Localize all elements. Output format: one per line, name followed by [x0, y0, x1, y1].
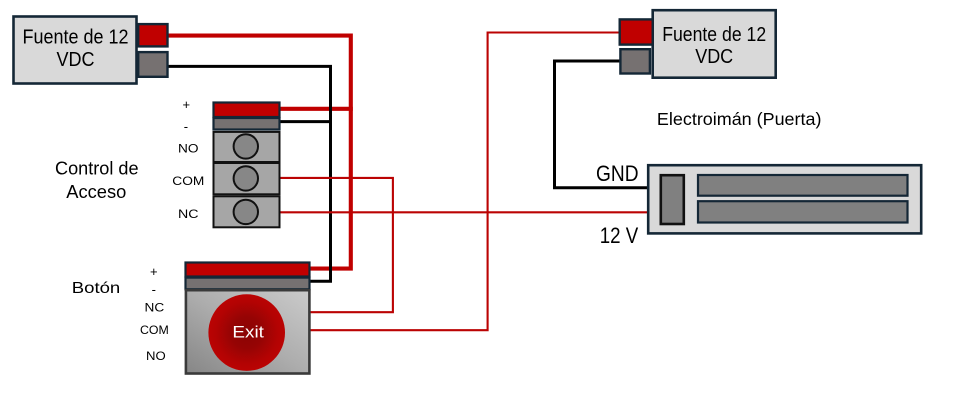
svg-text:Control de: Control de: [55, 159, 139, 179]
wire: left PSU + (red) to exit button +: [169, 36, 351, 269]
wire: control NC to maglock 12V: [281, 211, 648, 213]
svg-text:COM: COM: [140, 323, 169, 337]
svg-text:NC: NC: [178, 207, 199, 221]
svg-text:-: -: [152, 282, 156, 297]
wire: control COM to exit NC: [281, 178, 393, 312]
svg-text:-: -: [184, 119, 188, 134]
wire: right PSU - (black) to maglock GND: [555, 61, 648, 188]
exit button terminal - (gray cell): [186, 278, 310, 290]
wire: control access - to black vertical: [281, 120, 333, 123]
maglock magnet bar 1: [698, 175, 908, 196]
control access relay NC box: [214, 196, 280, 227]
svg-text:Fuente de 12: Fuente de 12: [662, 24, 766, 46]
terminal PS1 +12V (red): [138, 24, 167, 46]
terminal PS2 GND (gray): [620, 49, 650, 73]
svg-text:COM: COM: [172, 174, 204, 188]
svg-text:12 V: 12 V: [600, 223, 639, 248]
wire: left PSU - (black) to exit button -: [169, 66, 331, 281]
svg-text:GND: GND: [596, 161, 639, 186]
control access relay COM box: [214, 163, 280, 194]
wire: exit COM to right PSU +: [310, 33, 620, 331]
power supply PS1 box "Fuente de 12 VDC" (left): [14, 17, 137, 84]
exit button body: [186, 290, 310, 373]
exit button red pushbutton: [208, 294, 285, 371]
wire: control access + to red vertical: [281, 107, 353, 111]
svg-text:+: +: [150, 264, 158, 279]
svg-text:NC: NC: [145, 300, 165, 314]
control access terminal + (red cell): [214, 103, 280, 118]
maglock magnet bar 2: [698, 201, 908, 222]
svg-text:VDC: VDC: [57, 49, 95, 71]
power supply PS2 box "Fuente de 12 VDC" (right): [653, 10, 776, 78]
svg-text:+: +: [183, 97, 191, 112]
control access relay NO box: [214, 132, 280, 162]
svg-text:NO: NO: [146, 349, 166, 363]
exit button terminal + (red cell): [186, 263, 310, 277]
terminal PS1 GND (gray): [138, 52, 167, 77]
svg-text:Exit: Exit: [232, 323, 264, 342]
control access terminal - (gray cell): [214, 118, 280, 130]
electromagnet (maglock) body: [648, 165, 921, 233]
svg-text:Botón: Botón: [72, 280, 121, 297]
svg-text:Electroimán (Puerta): Electroimán (Puerta): [657, 109, 822, 129]
terminal PS2 +12V (red): [620, 19, 653, 44]
svg-text:VDC: VDC: [695, 46, 733, 68]
maglock armature block (small vertical rect): [661, 175, 684, 224]
svg-text:Acceso: Acceso: [66, 182, 126, 202]
svg-text:Fuente de 12: Fuente de 12: [23, 27, 129, 49]
svg-text:NO: NO: [178, 142, 199, 156]
label: Control de Acceso: [55, 159, 139, 203]
